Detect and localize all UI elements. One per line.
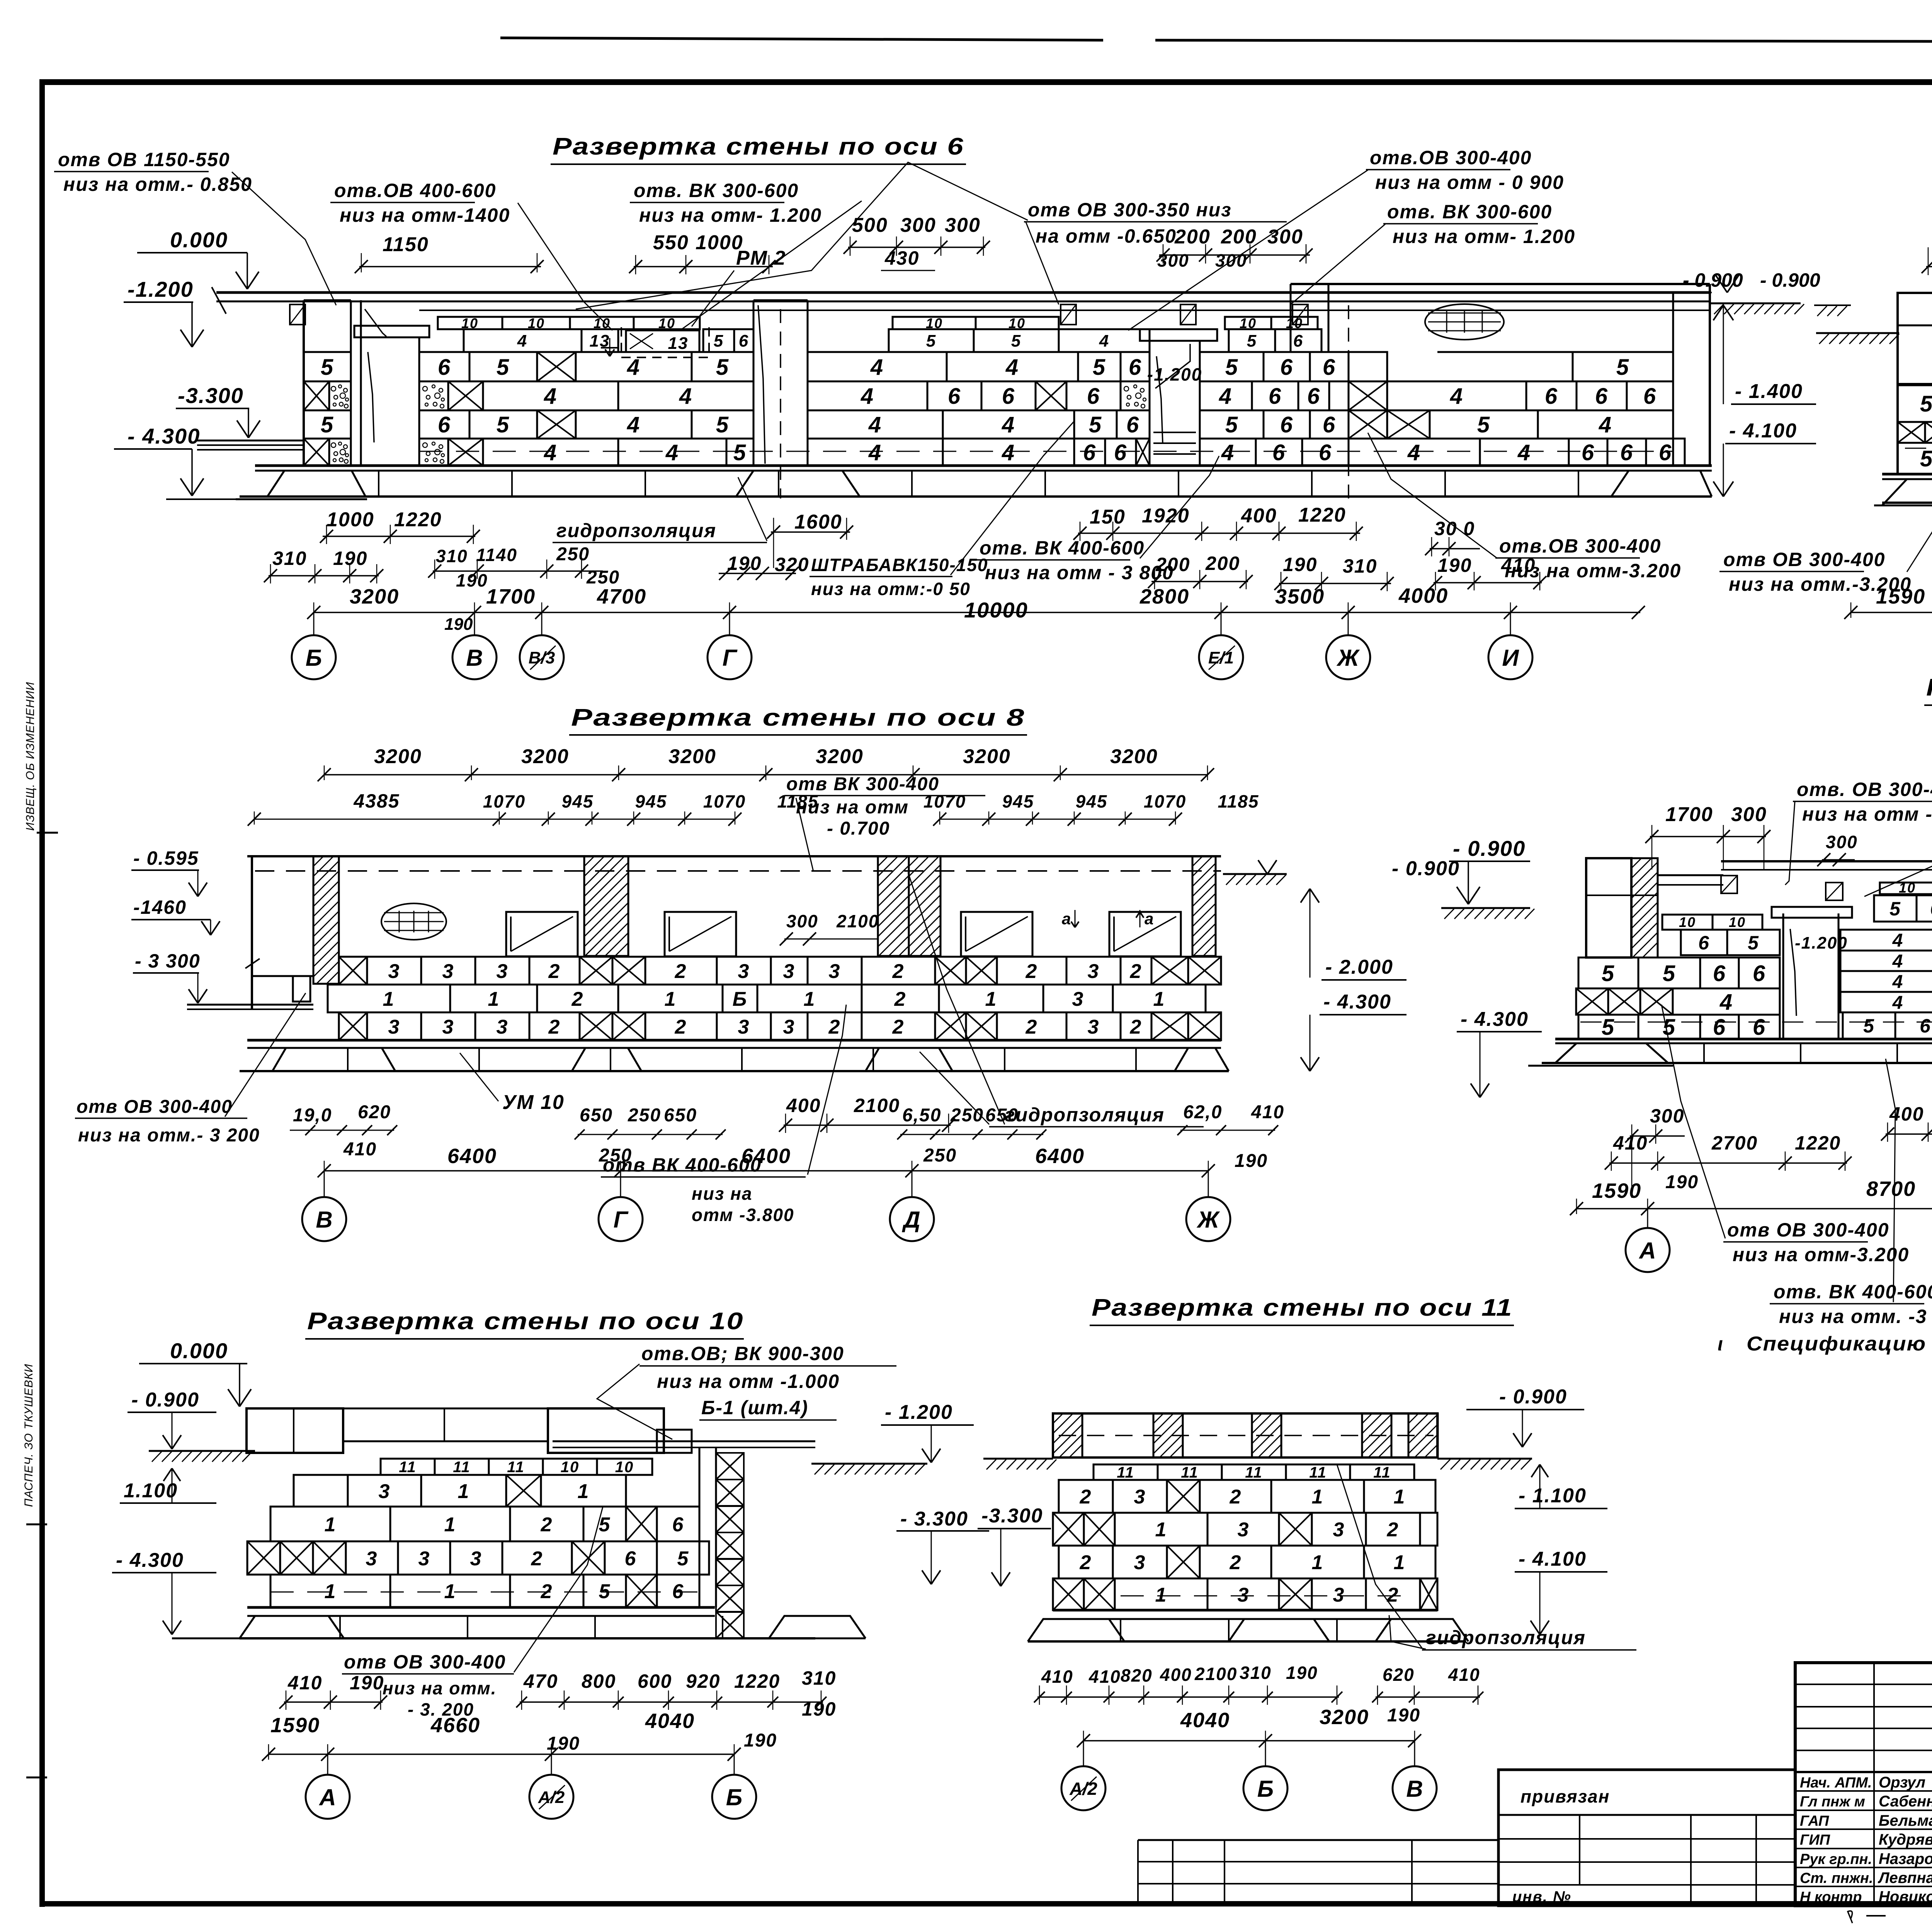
axis bubble В xyxy=(474,612,475,635)
axis bubble В elev11 xyxy=(1414,1741,1415,1766)
elevation 6: brick field Г to Е/1 xyxy=(893,317,976,329)
svg-text:2: 2 xyxy=(1026,1016,1038,1038)
svg-text:320: 320 xyxy=(775,554,809,575)
svg-text:5: 5 xyxy=(716,355,729,380)
svg-text:2: 2 xyxy=(1130,1016,1142,1038)
svg-text:4: 4 xyxy=(544,440,557,465)
svg-text:300: 300 xyxy=(900,214,936,236)
elevation 6: right blank wall block with brick patch xyxy=(1672,293,1674,466)
svg-text:3: 3 xyxy=(442,1016,454,1038)
svg-text:- 1.100: - 1.100 xyxy=(1519,1485,1587,1507)
svg-text:6: 6 xyxy=(1114,440,1127,465)
svg-text:6: 6 xyxy=(1083,440,1096,465)
svg-text:гидропзоляция: гидропзоляция xyxy=(556,520,716,541)
svg-text:3: 3 xyxy=(1333,1584,1345,1606)
svg-text:1: 1 xyxy=(488,988,500,1010)
svg-text:6400: 6400 xyxy=(447,1145,497,1168)
svg-text:ПАСПЕЧ. ЗО ТКУШЕВКИ: ПАСПЕЧ. ЗО ТКУШЕВКИ xyxy=(22,1364,35,1507)
svg-text:УМ 10: УМ 10 xyxy=(502,1091,565,1114)
axis bubble А elev10 xyxy=(327,1754,328,1775)
svg-text:10000: 10000 xyxy=(964,598,1028,622)
svg-text:отв. ВК 300-600: отв. ВК 300-600 xyxy=(1387,201,1552,223)
elevation 11: row D xyxy=(1053,1578,1084,1610)
svg-text:3: 3 xyxy=(366,1548,378,1570)
svg-text:ГАП: ГАП xyxy=(1800,1813,1829,1829)
svg-text:2700: 2700 xyxy=(1711,1132,1758,1154)
svg-text:низ на отм-3.200: низ на отм-3.200 xyxy=(1733,1244,1909,1265)
svg-text:отв. ВК 300-600: отв. ВК 300-600 xyxy=(634,180,799,201)
elevation 7: hydro dashed line xyxy=(1580,1022,1932,1023)
svg-text:отв.ОВ 400-600: отв.ОВ 400-600 xyxy=(334,180,496,201)
svg-text:5: 5 xyxy=(1889,898,1901,920)
elevation 9: foundation and footing xyxy=(1882,473,1932,476)
svg-text:- 2.000: - 2.000 xyxy=(1325,956,1393,978)
svg-text:3: 3 xyxy=(388,960,400,983)
drawing frame xyxy=(39,79,45,1907)
svg-text:отв ОВ 1150-550: отв ОВ 1150-550 xyxy=(58,149,230,170)
svg-text:310: 310 xyxy=(1343,555,1377,577)
elevation 7: slab hole markers xyxy=(1721,876,1737,893)
svg-text:- 0.900: - 0.900 xyxy=(1453,836,1526,861)
svg-text:2: 2 xyxy=(531,1548,543,1570)
svg-text:Бельман: Бельман xyxy=(1879,1812,1932,1829)
left margin tick marks xyxy=(37,832,58,834)
svg-text:250: 250 xyxy=(556,544,590,565)
svg-text:11: 11 xyxy=(453,1459,471,1476)
svg-text:310: 310 xyxy=(1240,1663,1272,1683)
svg-text:190: 190 xyxy=(1437,554,1472,576)
svg-text:5: 5 xyxy=(321,412,334,437)
svg-text:- 0.700: - 0.700 xyxy=(827,818,890,839)
svg-text:5: 5 xyxy=(716,412,729,437)
svg-text:низ на отм.- 3 200: низ на отм.- 3 200 xyxy=(78,1125,260,1146)
elevation 6: door opening at В axis xyxy=(360,337,362,466)
svg-text:1: 1 xyxy=(1153,988,1165,1010)
svg-text:5: 5 xyxy=(1011,332,1021,350)
svg-text:5: 5 xyxy=(1477,412,1490,437)
svg-text:ШТРАБАВК150-150: ШТРАБАВК150-150 xyxy=(811,555,988,575)
svg-text:2: 2 xyxy=(571,988,584,1010)
svg-text:Ст. пнжн.: Ст. пнжн. xyxy=(1800,1870,1873,1886)
svg-text:2: 2 xyxy=(1026,960,1038,983)
svg-text:4: 4 xyxy=(679,384,692,409)
svg-text:4: 4 xyxy=(1002,440,1015,465)
svg-text:500: 500 xyxy=(852,214,888,236)
svg-text:410: 410 xyxy=(1251,1102,1284,1122)
svg-text:3: 3 xyxy=(783,1016,795,1038)
svg-text:6: 6 xyxy=(625,1548,637,1570)
svg-text:3: 3 xyxy=(1238,1584,1250,1606)
svg-text:Развертка стены по оси 11: Развертка стены по оси 11 xyxy=(1092,1294,1513,1321)
svg-text:8700: 8700 xyxy=(1866,1177,1916,1201)
svg-text:В: В xyxy=(316,1207,332,1233)
svg-text:низ на отм- 1.200: низ на отм- 1.200 xyxy=(639,204,822,226)
svg-text:- 0.900: - 0.900 xyxy=(131,1389,199,1411)
svg-text:низ на отм - 3 800: низ на отм - 3 800 xyxy=(985,562,1174,583)
axis bubble В/3 xyxy=(541,612,543,635)
elevation 6: footing block row xyxy=(240,495,1712,498)
svg-text:300: 300 xyxy=(1650,1105,1684,1127)
svg-text:отв.ОВ 300-400: отв.ОВ 300-400 xyxy=(1499,535,1661,557)
svg-text:1: 1 xyxy=(1155,1519,1167,1541)
elevation 8: brick row C xyxy=(339,1012,367,1040)
svg-text:отв ОВ 300-400: отв ОВ 300-400 xyxy=(77,1097,233,1117)
svg-text:1: 1 xyxy=(444,1514,456,1536)
svg-text:2100: 2100 xyxy=(854,1095,900,1116)
svg-text:3: 3 xyxy=(497,1016,509,1038)
svg-text:1000: 1000 xyxy=(327,509,374,531)
svg-text:6: 6 xyxy=(1643,384,1656,409)
svg-text:190: 190 xyxy=(333,548,367,569)
svg-text:6: 6 xyxy=(1126,412,1139,437)
svg-text:Ж: Ж xyxy=(1336,645,1360,671)
svg-text:-1.200: -1.200 xyxy=(1147,364,1202,384)
svg-text:5: 5 xyxy=(1602,961,1615,986)
axis bubble А elev7 xyxy=(1647,1209,1648,1228)
elevation 6: floor slab lines xyxy=(216,291,1710,294)
svg-text:2: 2 xyxy=(1230,1486,1242,1508)
svg-text:Б: Б xyxy=(733,988,748,1010)
svg-text:200: 200 xyxy=(1155,554,1190,575)
elevation 7: row 6 5 xyxy=(1681,930,1727,955)
svg-text:6: 6 xyxy=(1269,384,1282,409)
svg-text:190: 190 xyxy=(456,570,488,590)
svg-text:6: 6 xyxy=(1582,440,1595,465)
svg-text:190: 190 xyxy=(1665,1172,1699,1192)
svg-text:5: 5 xyxy=(1920,391,1932,417)
svg-text:Развертка стены по оси 7: Развертка стены по оси 7 xyxy=(1926,674,1932,701)
svg-text:410: 410 xyxy=(1613,1132,1648,1154)
svg-text:2: 2 xyxy=(1387,1519,1399,1541)
svg-text:низ на отм: низ на отм xyxy=(796,797,909,818)
svg-text:6: 6 xyxy=(1293,332,1303,350)
svg-text:4000: 4000 xyxy=(1398,584,1448,607)
elevation 10: lattice pier right xyxy=(716,1453,744,1480)
elevation 11: ground hatch right xyxy=(1437,1458,1532,1460)
elevation 10: row B xyxy=(270,1507,390,1541)
svg-text:-3.300: -3.300 xyxy=(981,1505,1043,1527)
svg-text:4: 4 xyxy=(1599,412,1612,437)
svg-text:4: 4 xyxy=(1450,384,1463,409)
svg-text:6: 6 xyxy=(672,1514,684,1536)
svg-text:5: 5 xyxy=(1616,355,1629,380)
svg-text:300: 300 xyxy=(1267,226,1303,248)
elevation 6: door opening at Е/1 with steps xyxy=(1149,341,1151,466)
svg-text:4385: 4385 xyxy=(353,790,400,812)
svg-text:Б-1 (шт.4): Б-1 (шт.4) xyxy=(701,1397,808,1418)
svg-text:1: 1 xyxy=(1394,1551,1406,1574)
svg-text:550: 550 xyxy=(653,231,689,254)
elevation 9: hydro dashed line xyxy=(1905,448,1932,449)
svg-text:1220: 1220 xyxy=(1795,1132,1841,1154)
svg-text:5: 5 xyxy=(497,412,510,437)
svg-text:3: 3 xyxy=(418,1548,430,1570)
svg-text:5: 5 xyxy=(1602,1015,1615,1040)
elevation 6: basement floor lines left xyxy=(197,440,304,442)
svg-text:- 0.900: - 0.900 xyxy=(1499,1386,1567,1408)
svg-text:2100: 2100 xyxy=(1194,1664,1237,1684)
svg-text:300: 300 xyxy=(945,214,981,236)
svg-text:3: 3 xyxy=(1238,1519,1250,1541)
svg-text:1: 1 xyxy=(1312,1486,1324,1508)
svg-text:отв. ОВ 300-400: отв. ОВ 300-400 xyxy=(1797,779,1932,800)
svg-text:2: 2 xyxy=(548,1016,561,1038)
elevation 10: wall top blocks xyxy=(247,1408,343,1453)
svg-text:5: 5 xyxy=(1663,961,1676,986)
svg-text:3: 3 xyxy=(783,960,795,983)
svg-text:430: 430 xyxy=(884,247,919,269)
svg-text:3200: 3200 xyxy=(374,745,422,768)
svg-text:5: 5 xyxy=(677,1548,689,1570)
svg-text:- 0.900: - 0.900 xyxy=(1760,269,1820,291)
svg-text:6: 6 xyxy=(1280,412,1293,437)
svg-text:945: 945 xyxy=(562,791,594,811)
elevation 6: sub row with 4 13 РМ2 box xyxy=(464,329,582,352)
svg-text:3200: 3200 xyxy=(1110,745,1158,768)
svg-text:1: 1 xyxy=(578,1480,590,1503)
svg-text:410: 410 xyxy=(287,1672,322,1694)
svg-text:3: 3 xyxy=(1088,1016,1100,1038)
svg-text:2: 2 xyxy=(548,960,561,983)
svg-text:отв. ВК 400-600: отв. ВК 400-600 xyxy=(980,537,1145,559)
svg-text:2: 2 xyxy=(675,1016,687,1038)
elevation 7: plank row left xyxy=(1662,915,1713,930)
elevation 10: hole marker with leader xyxy=(657,1430,692,1453)
svg-text:1140: 1140 xyxy=(476,545,517,565)
svg-text:10: 10 xyxy=(1729,914,1746,930)
svg-text:190: 190 xyxy=(744,1730,777,1751)
svg-text:11: 11 xyxy=(1117,1464,1134,1481)
svg-text:отв. ВК 400-600: отв. ВК 400-600 xyxy=(1774,1281,1932,1303)
svg-text:низ на отм-1400: низ на отм-1400 xyxy=(340,204,510,226)
title block: horizontal line under header xyxy=(1795,1771,1932,1773)
title block: left columns verticals xyxy=(1873,1663,1875,1906)
svg-text:11: 11 xyxy=(507,1459,525,1476)
svg-text:1: 1 xyxy=(665,988,677,1010)
elevation 11: row A xyxy=(1059,1480,1113,1513)
svg-text:3: 3 xyxy=(442,960,454,983)
svg-text:6: 6 xyxy=(1920,1015,1931,1037)
svg-text:920: 920 xyxy=(686,1670,720,1692)
elevation 10: slab lines right part xyxy=(553,1440,815,1442)
svg-text:3: 3 xyxy=(1072,988,1084,1010)
title block: привязан table xyxy=(1498,1770,1795,1906)
svg-text:300: 300 xyxy=(1157,250,1189,270)
svg-text:3200: 3200 xyxy=(816,745,864,768)
svg-text:6: 6 xyxy=(1713,961,1726,986)
svg-text:5: 5 xyxy=(1748,932,1759,954)
svg-text:низ на: низ на xyxy=(692,1184,753,1204)
svg-text:0.000: 0.000 xyxy=(170,228,228,252)
elevation 11: ground hatch left xyxy=(983,1458,1053,1460)
svg-text:Орзул: Орзул xyxy=(1879,1774,1925,1791)
svg-text:3: 3 xyxy=(379,1480,391,1503)
svg-text:1220: 1220 xyxy=(734,1670,780,1692)
svg-text:11: 11 xyxy=(1309,1464,1327,1481)
svg-text:низ на отм -1.000: низ на отм -1.000 xyxy=(657,1371,840,1392)
svg-text:3200: 3200 xyxy=(963,745,1011,768)
svg-text:1220: 1220 xyxy=(1298,504,1346,526)
elevation 6: slab hole markers xyxy=(290,304,305,325)
elevation 7: door at elevation 7 xyxy=(1782,913,1784,1039)
svg-text:-3.300: -3.300 xyxy=(178,383,244,408)
svg-text:300: 300 xyxy=(786,911,818,931)
svg-text:отв.ОВ 300-400: отв.ОВ 300-400 xyxy=(1370,147,1532,168)
svg-text:3: 3 xyxy=(470,1548,482,1570)
svg-text:2: 2 xyxy=(1130,960,1142,983)
svg-text:400: 400 xyxy=(786,1095,821,1116)
svg-text:11: 11 xyxy=(1181,1464,1199,1481)
svg-text:10: 10 xyxy=(658,315,675,331)
elevation 10: foundation strip xyxy=(247,1606,715,1609)
svg-text:945: 945 xyxy=(1002,791,1034,811)
elevation 11: plank row 11s xyxy=(1094,1464,1158,1480)
svg-text:ι: ι xyxy=(1718,1333,1724,1355)
svg-text:отв.ОВ; ВК 900-300: отв.ОВ; ВК 900-300 xyxy=(641,1343,844,1364)
svg-text:2: 2 xyxy=(894,988,906,1010)
svg-text:6400: 6400 xyxy=(742,1145,791,1168)
svg-text:190: 190 xyxy=(727,553,762,574)
title block: upper small rows xyxy=(1795,1684,1932,1685)
svg-text:6400: 6400 xyxy=(1035,1145,1085,1168)
svg-text:2: 2 xyxy=(1080,1486,1092,1508)
svg-text:6: 6 xyxy=(1713,1015,1726,1040)
svg-text:62,0: 62,0 xyxy=(1183,1102,1222,1122)
elevation 10: ground hatch right xyxy=(811,1463,927,1465)
svg-text:250: 250 xyxy=(923,1145,957,1166)
svg-text:отв ОВ 300-400: отв ОВ 300-400 xyxy=(344,1651,506,1673)
elevation 7: wall structure parapet xyxy=(1586,858,1631,957)
svg-text:1: 1 xyxy=(804,988,816,1010)
svg-text:6: 6 xyxy=(948,384,961,409)
svg-text:4: 4 xyxy=(868,412,882,437)
svg-text:Новикова: Новикова xyxy=(1879,1888,1932,1905)
svg-text:- 3 300: - 3 300 xyxy=(135,950,201,972)
svg-text:РМ 2: РМ 2 xyxy=(736,247,786,269)
svg-text:250: 250 xyxy=(950,1105,984,1126)
svg-text:Г: Г xyxy=(723,645,738,671)
svg-text:- 0.900: - 0.900 xyxy=(1683,269,1743,291)
svg-text:ГИП: ГИП xyxy=(1800,1832,1830,1848)
svg-text:3: 3 xyxy=(388,1016,400,1038)
svg-text:низ на отм- 1.200: низ на отм- 1.200 xyxy=(1393,226,1575,247)
svg-text:1590: 1590 xyxy=(270,1714,320,1737)
svg-text:гидропзоляция: гидропзоляция xyxy=(1005,1104,1165,1126)
svg-text:отм -3.800: отм -3.800 xyxy=(692,1205,794,1225)
svg-text:низ на отм-3.200: низ на отм-3.200 xyxy=(1505,560,1681,582)
svg-text:Развертка стены по оси 8: Развертка стены по оси 8 xyxy=(571,704,1025,731)
svg-text:2800: 2800 xyxy=(1139,585,1189,608)
svg-text:6: 6 xyxy=(1129,355,1142,380)
title block: main frame xyxy=(1795,1663,1932,1906)
elevation 7: right bottom row 5 6 xyxy=(1843,1012,1895,1039)
svg-text:отв ОВ 300-400: отв ОВ 300-400 xyxy=(1723,549,1885,570)
svg-text:6: 6 xyxy=(1323,412,1336,437)
svg-text:650: 650 xyxy=(580,1105,613,1126)
svg-text:250: 250 xyxy=(628,1105,661,1126)
elevation 8: footing row xyxy=(240,1070,1229,1072)
svg-text:410: 410 xyxy=(1088,1667,1121,1687)
svg-text:2: 2 xyxy=(892,1016,905,1038)
svg-text:310: 310 xyxy=(436,546,468,566)
elevation 6: axis Ж dashed line and X block xyxy=(1348,305,1349,498)
svg-text:6: 6 xyxy=(1698,932,1710,954)
svg-text:а: а xyxy=(1062,910,1071,928)
svg-text:В/3: В/3 xyxy=(529,648,555,667)
svg-text:6: 6 xyxy=(1753,1015,1766,1040)
svg-text:2: 2 xyxy=(1230,1551,1242,1574)
svg-text:5: 5 xyxy=(926,332,936,350)
elevation 9: left brick rows xyxy=(1898,385,1932,422)
svg-text:4: 4 xyxy=(665,440,679,465)
axis bubble А/2 elev10 xyxy=(551,1754,552,1775)
svg-text:620: 620 xyxy=(1383,1665,1415,1685)
elevation 8: windows row xyxy=(506,912,578,956)
svg-text:4040: 4040 xyxy=(1180,1709,1230,1732)
svg-text:4: 4 xyxy=(870,355,884,380)
svg-text:3: 3 xyxy=(829,960,841,983)
svg-text:5: 5 xyxy=(714,332,724,350)
svg-text:4: 4 xyxy=(1517,440,1531,465)
elevation 10: row C xyxy=(247,1541,280,1575)
svg-text:1070: 1070 xyxy=(483,791,526,811)
svg-text:низ на отм:-0 50: низ на отм:-0 50 xyxy=(811,579,971,599)
svg-text:- 0.595: - 0.595 xyxy=(133,847,199,869)
elevation 6: plank row 10 left field xyxy=(438,317,502,329)
svg-text:11: 11 xyxy=(1245,1464,1263,1481)
svg-text:Левпна: Левпна xyxy=(1878,1869,1932,1886)
svg-text:190: 190 xyxy=(1283,554,1317,575)
svg-text:А: А xyxy=(318,1784,336,1810)
axis bubble Ж elev8 xyxy=(1208,1171,1209,1197)
elevation 6: brick field Ж to И and right end xyxy=(1349,352,1387,381)
svg-text:300: 300 xyxy=(1731,803,1767,826)
axis bubble И xyxy=(1510,612,1511,635)
svg-text:- 4.300: - 4.300 xyxy=(128,424,200,448)
svg-text:Н контр: Н контр xyxy=(1800,1889,1862,1905)
svg-text:620: 620 xyxy=(358,1102,391,1122)
svg-text:400: 400 xyxy=(1241,505,1277,527)
svg-text:4040: 4040 xyxy=(645,1709,695,1733)
svg-text:3200: 3200 xyxy=(521,745,569,768)
elevation 6: footing trapezoids xyxy=(267,471,366,497)
svg-text:Д: Д xyxy=(901,1207,920,1233)
svg-text:6: 6 xyxy=(1595,384,1608,409)
svg-text:600: 600 xyxy=(638,1670,672,1692)
svg-text:Назарова: Назарова xyxy=(1879,1850,1932,1867)
svg-text:400: 400 xyxy=(1160,1665,1192,1685)
svg-text:5: 5 xyxy=(733,440,747,465)
svg-text:низ на отм.- 0.850: низ на отм.- 0.850 xyxy=(63,173,252,195)
svg-text:5: 5 xyxy=(1089,412,1102,437)
svg-text:Б: Б xyxy=(726,1784,742,1810)
svg-text:3: 3 xyxy=(1134,1486,1146,1508)
axis bubble Б elev11 xyxy=(1265,1741,1266,1766)
svg-text:310: 310 xyxy=(272,548,307,569)
elevation 6: wall bottom foundation strip xyxy=(255,464,1712,467)
svg-text:отв ОВ 300-350 низ: отв ОВ 300-350 низ xyxy=(1028,199,1232,221)
svg-text:- 4.100: - 4.100 xyxy=(1729,420,1797,442)
svg-text:1: 1 xyxy=(383,988,395,1010)
elevation 10: row A xyxy=(294,1475,348,1507)
svg-text:6,50: 6,50 xyxy=(902,1105,941,1126)
svg-text:1590: 1590 xyxy=(1876,585,1925,608)
svg-text:а: а xyxy=(1145,910,1154,928)
svg-text:Гл пнж м: Гл пнж м xyxy=(1800,1794,1865,1810)
svg-text:4: 4 xyxy=(627,355,640,380)
svg-text:В: В xyxy=(466,645,483,671)
svg-text:- 1.200: - 1.200 xyxy=(885,1401,953,1423)
